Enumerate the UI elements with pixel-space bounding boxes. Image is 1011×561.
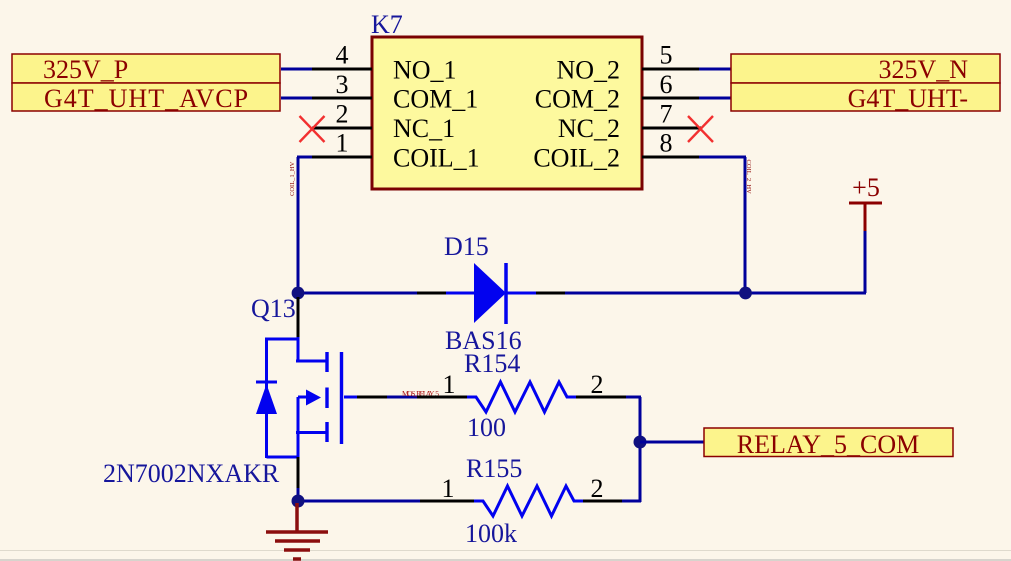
svg-text:R154: R154 — [464, 349, 520, 378]
net label box G4T_UHT_AVCP — [12, 83, 280, 113]
pin 3 — [312, 97, 372, 100]
svg-text:325V_N: 325V_N — [878, 55, 968, 84]
svg-text:COIL_2_HV: COIL_2_HV — [745, 160, 752, 195]
transistor gate pin — [357, 396, 387, 399]
pin 2 — [312, 127, 372, 130]
diode D15 pin 1 (right) — [534, 292, 565, 295]
resistor R155 pin 1 — [420, 500, 475, 503]
svg-text:100k: 100k — [465, 519, 517, 548]
relay K7 body — [372, 37, 642, 189]
svg-text:1: 1 — [336, 129, 349, 158]
transistor Q2N7002 drain pin — [297, 297, 300, 339]
pin 6 — [642, 97, 701, 100]
svg-text:2: 2 — [336, 99, 349, 128]
svg-text:2: 2 — [591, 370, 604, 399]
wire pin1 horizontal — [297, 156, 314, 159]
svg-text:G4T_UHT_AVCP: G4T_UHT_AVCP — [44, 84, 249, 113]
wire ground node to R155 — [298, 500, 421, 503]
svg-text:Q13: Q13 — [251, 294, 296, 323]
junction node at ground — [292, 495, 305, 508]
wire pin1 vertical down to node — [297, 157, 300, 293]
no-ERC cross pin 7 — [688, 116, 713, 142]
pin 8 — [642, 156, 701, 159]
wire column R154 to R155 — [639, 397, 642, 502]
svg-text:3: 3 — [336, 70, 349, 99]
resistor R154 pin 1 — [417, 396, 468, 399]
resistor R155 body — [474, 486, 583, 516]
junction node RELAY_5_COM — [634, 436, 647, 449]
svg-text:NC_2: NC_2 — [558, 114, 620, 143]
wire G4T_UHT_AVCP to pin 3 — [281, 97, 314, 100]
svg-text:8: 8 — [660, 129, 673, 158]
wire gate to R154 — [387, 396, 418, 399]
svg-text:325V_P: 325V_P — [43, 55, 128, 84]
svg-text:RELAY_5_COM: RELAY_5_COM — [737, 430, 920, 459]
diode D15 symbol — [446, 263, 536, 324]
wire R154 pin2 to column — [626, 396, 641, 399]
pin 7 — [642, 127, 701, 130]
svg-text:7: 7 — [660, 99, 673, 128]
net label box G4T_UHT- — [731, 83, 1000, 113]
svg-text:D15: D15 — [444, 232, 489, 261]
svg-text:COIL_1: COIL_1 — [393, 144, 480, 173]
junction node at drain — [292, 287, 305, 300]
svg-text:COM_2: COM_2 — [535, 85, 620, 114]
svg-text:4: 4 — [336, 41, 349, 70]
net label box 325V_N — [731, 54, 1000, 84]
pin 1 — [312, 156, 372, 159]
svg-text:NC_1: NC_1 — [393, 114, 455, 143]
svg-text:R155: R155 — [466, 454, 522, 483]
wire R155 pin2 to column — [622, 500, 641, 503]
wire pin 5 to 325V_N — [699, 68, 732, 71]
svg-text:100: 100 — [467, 413, 506, 442]
sheet border bottom line — [0, 550, 1011, 551]
transistor Q13 symbol — [256, 337, 357, 458]
svg-text:G4T_UHT-: G4T_UHT- — [848, 84, 968, 113]
wire pin 6 to G4T_UHT- — [699, 97, 732, 100]
sheet bottom edge band — [0, 559, 1011, 561]
wire pin 8 horizontal — [699, 156, 746, 159]
svg-text:NO_2: NO_2 — [556, 55, 620, 84]
net label box RELAY_5_COM — [704, 428, 953, 459]
svg-text:2: 2 — [591, 474, 604, 503]
wire source to ground node — [297, 488, 300, 501]
resistor R154 pin 2 — [576, 396, 627, 399]
no-ERC cross pin 2 — [300, 116, 325, 142]
svg-text:5: 5 — [660, 41, 673, 70]
net label box 325V_P — [12, 54, 280, 84]
power port +5 — [849, 173, 882, 231]
pin 5 — [642, 68, 701, 71]
transistor source pin — [297, 457, 300, 490]
junction node at pin 8 column — [739, 287, 752, 300]
wire +5 riser — [864, 230, 867, 293]
svg-text:COIL_2: COIL_2 — [533, 144, 620, 173]
svg-text:2N7002NXAKR: 2N7002NXAKR — [103, 459, 280, 488]
resistor R155 pin 2 — [583, 500, 623, 503]
resistor R154 body — [467, 382, 576, 412]
svg-text:K7: K7 — [371, 10, 403, 39]
svg-text:1: 1 — [442, 474, 455, 503]
svg-text:6: 6 — [660, 70, 673, 99]
ground symbol — [266, 503, 328, 559]
pin 4 — [312, 68, 372, 71]
svg-text:+5: +5 — [852, 173, 880, 202]
wire main horizontal (node row) — [298, 292, 866, 295]
svg-text:COIL_1_HV: COIL_1_HV — [289, 161, 296, 196]
diode D15 pin 2 (left) — [417, 292, 448, 295]
svg-text:COM_1: COM_1 — [393, 85, 478, 114]
wire node to RELAY_5_COM box — [640, 441, 705, 444]
wire pin 8 vertical down to node — [744, 157, 747, 293]
svg-text:1: 1 — [443, 370, 456, 399]
wire 325V_P to pin 4 — [281, 68, 314, 71]
svg-text:NO_1: NO_1 — [393, 55, 457, 84]
